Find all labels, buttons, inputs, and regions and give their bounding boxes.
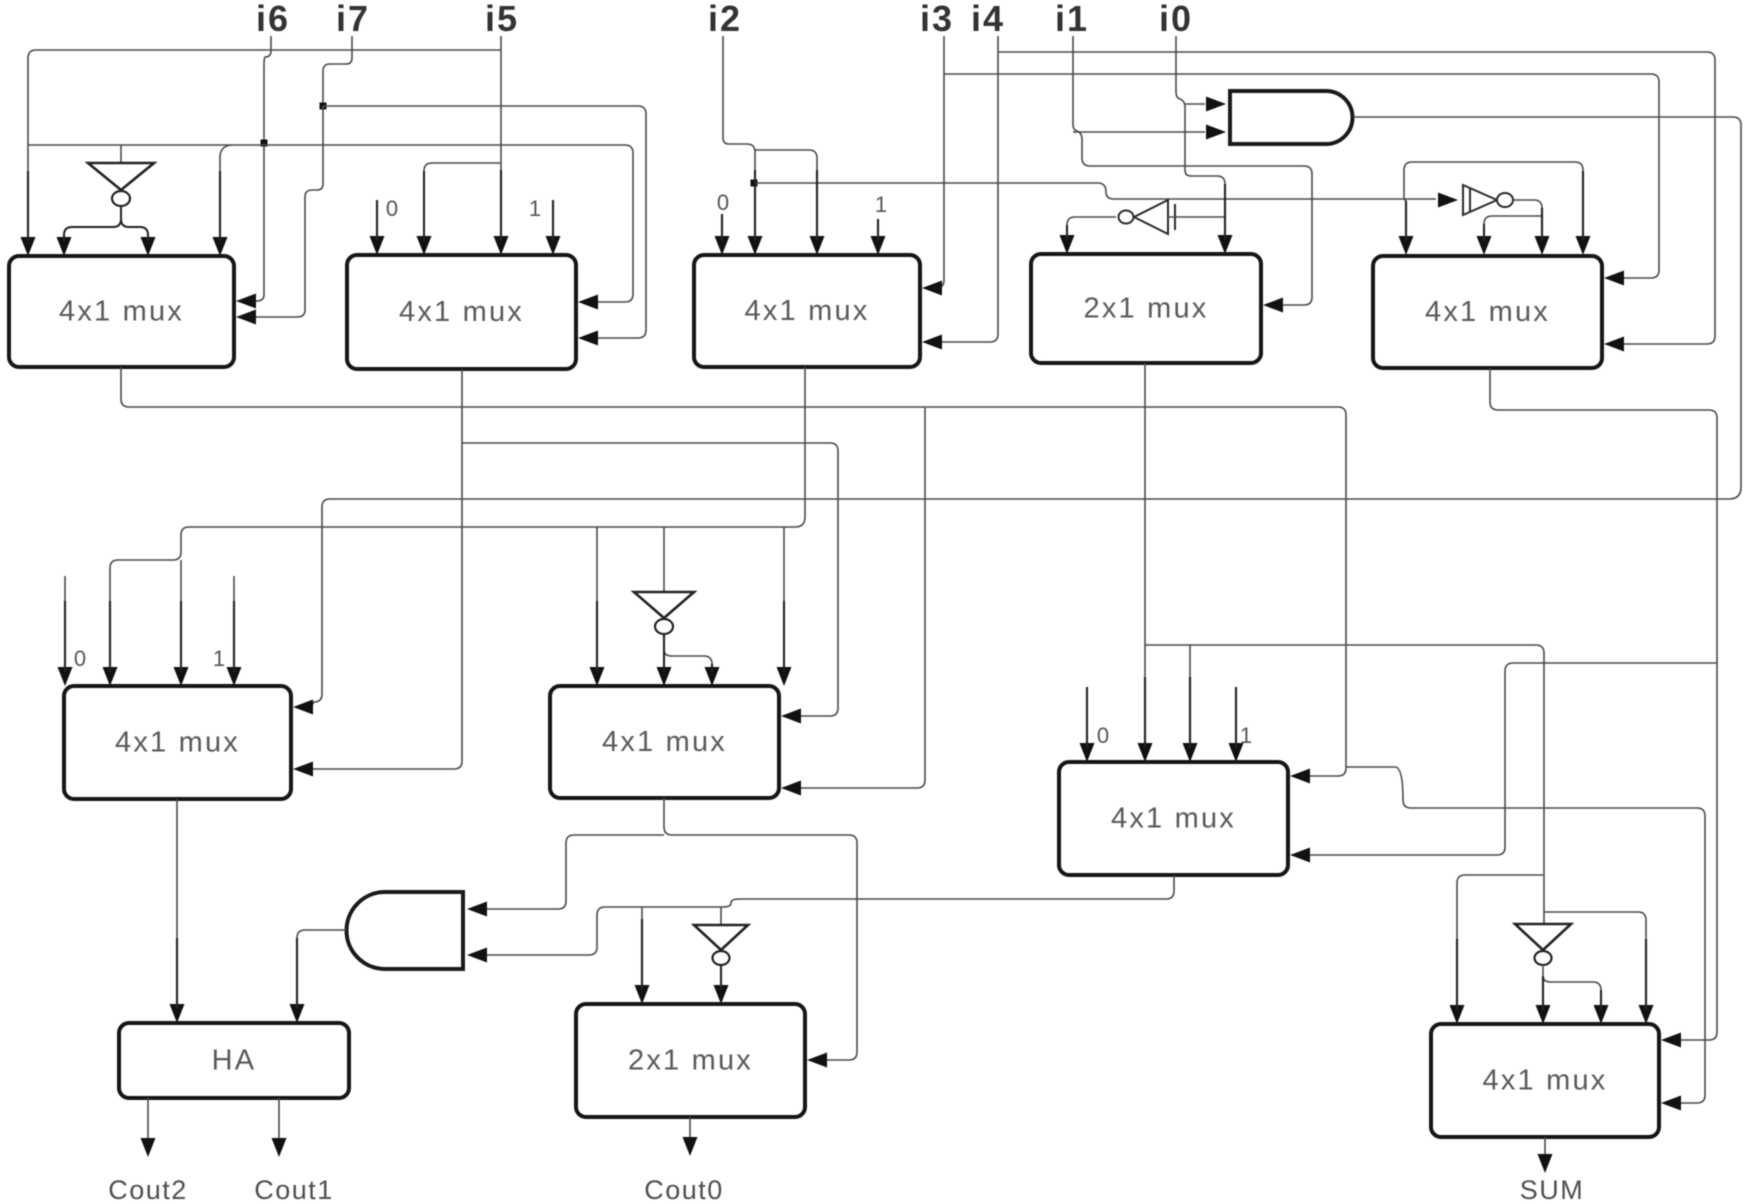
arrow into B8 in3 [1183,743,1198,762]
and gate G6 [347,892,464,969]
2x1 mux U4 [1031,254,1261,363]
wire darker arrow stems [28,170,1646,1010]
wire G2 output long return y499 [311,117,1741,707]
svg-text:2x1 mux: 2x1 mux [628,1045,753,1077]
wire y527 branch to G5 input [663,527,665,592]
arrow into B7 right select 1 [781,709,801,724]
arrow into B7 in2 [657,667,672,686]
arrow into B11 in4 [1639,1005,1654,1024]
wire B5out branch y663 to B8 select2 [1310,663,1717,855]
wire B10 output Cout0 [689,1117,691,1140]
arrow into B3 in4 [871,236,886,255]
junction i6 bus [261,140,268,147]
svg-text:Cout1: Cout1 [254,1175,334,1204]
svg-text:i7: i7 [336,0,370,39]
arrow into B2 in1 [370,236,385,255]
svg-text:4x1 mux: 4x1 mux [59,296,184,328]
wire HA output Cout1 [278,1098,280,1141]
arrow into B8 right select 1 [1290,769,1310,784]
arrow into B10 in2 [714,985,729,1004]
svg-text:i4: i4 [971,0,1005,39]
svg-text:i5: i5 [485,0,519,39]
wire HA output Cout2 [147,1098,149,1141]
wire G6 output to HA in2 [297,930,346,1007]
svg-text:i6: i6 [256,0,290,39]
wire const1 B2 in4 [552,200,554,239]
wire G7 output to B10 in2 [720,965,722,988]
wire branch to B10 in1 [641,907,643,988]
wire G5 branch to B7 in3 [664,650,712,672]
arrow into B1 in2 [57,237,72,256]
svg-text:1: 1 [213,646,225,671]
svg-text:4x1 mux: 4x1 mux [1483,1065,1608,1097]
wire branch to B1 in4 [220,145,231,240]
inverter G4 [1463,185,1513,215]
svg-text:i1: i1 [1055,0,1089,39]
wire i6 horizontal bus y145 [28,145,633,302]
4x1 mux U6 [64,686,291,799]
svg-text:1: 1 [875,192,887,217]
wire B6 output to HA in1 [176,799,178,1007]
wire B7 output tee [664,798,857,1060]
arrow into B6 in4 [227,667,242,686]
arrow into HA in1 [170,1004,185,1023]
arrow into B5 in3 [1535,236,1550,255]
arrow into B5 in1 [1399,236,1414,255]
wire G4 output branch to B5 in2 [1484,216,1542,239]
arrow into B1 in1 [21,237,36,256]
4x1 mux U1 [9,256,234,367]
wire B5 output right side down [1490,368,1717,1040]
arrow into G2 in1 [1206,97,1226,112]
4x1 mux U5 [1373,256,1602,368]
wire i3 branch y74 right edge [944,74,1659,278]
arrow into B1 right select 1 [236,294,256,309]
wire G1 input stub [120,145,122,164]
wire i1 stem [1073,36,1312,305]
svg-text:i2: i2 [708,0,742,39]
arrow output Cout2 [141,1138,156,1157]
svg-text:0: 0 [74,646,86,671]
wire B2 output down [313,369,462,769]
svg-text:i3: i3 [920,0,954,39]
wire B5 xor loop [1404,162,1583,239]
wire net407 branch to B7 select2 [801,408,925,788]
svg-text:4x1 mux: 4x1 mux [399,296,524,328]
svg-text:0: 0 [386,196,398,221]
wire G4 output to B5 in3 [1513,200,1542,239]
arrow into B5 right select 2 [1604,337,1624,352]
arrow into B11 right select 2 [1661,1096,1681,1111]
arrow into B5 right select 1 [1604,271,1624,286]
arrow into HA in2 [290,1004,305,1023]
arrow into B6 in3 [174,667,189,686]
svg-text:HA: HA [212,1045,257,1077]
junction i2 bus [751,180,758,187]
arrow into B7 right select 2 [781,781,801,796]
svg-text:SUM: SUM [1520,1175,1585,1204]
wire i5 left branch y50 to B1 in1 [28,50,501,240]
arrow into B6 in1 [58,667,73,686]
svg-text:1: 1 [1240,723,1252,748]
arrow into B4 in2 [1218,235,1233,254]
half adder HA [119,1023,349,1098]
junction i7 bus [320,103,327,110]
4x1 mux U7 [550,686,779,798]
wire i3 stem to B3 select1 [936,36,944,288]
arrow into B11 in3 [1594,1005,1609,1024]
arrow into B2 in4 [546,236,561,255]
wire i5 stem down to B2 in3 [500,36,502,239]
arrow into B6 in2 [103,667,118,686]
wire i4 stem to B3 select2 [940,36,998,342]
wire y645 branch to B8 in3 [1189,645,1191,746]
inverter G1 [88,163,154,206]
wire i0 stem jogs [1176,36,1225,240]
wire i4 branch y52 right edge [998,52,1715,344]
wire B2out branch y443 to B7 select1 [462,443,838,716]
wire const0 B8 in1 [1086,687,1088,746]
svg-text:Cout0: Cout0 [644,1175,724,1204]
wire y527 branch to B6 in3 [180,560,182,670]
wire i5 branch y163 to B2 in2 [424,163,501,239]
4x1 mux U2 [347,255,576,369]
svg-text:1: 1 [529,196,541,221]
svg-text:4x1 mux: 4x1 mux [1111,803,1236,835]
arrow into B4 right select [1263,298,1283,313]
arrow into G6 in1 [467,902,487,917]
arrow into B5 in2 [1477,236,1492,255]
wire const1 B3 in4 [877,219,879,241]
svg-text:2x1 mux: 2x1 mux [1084,293,1209,325]
arrow into B8 in2 [1138,743,1153,762]
wire i6 vertical below junction to B1 select [254,143,264,301]
wire const0 B6 in1 [64,576,66,670]
arrow into B2 in3 [494,236,509,255]
svg-text:0: 0 [1097,723,1109,748]
arrow into B7 in4 [777,667,792,686]
and gate G2 [1230,91,1353,144]
wire i2 stem jog to B3 in2 [723,36,755,239]
arrow into G4 input [1438,193,1458,208]
arrow into B3 right select 1 [922,281,942,296]
arrow into B11 in2 [1536,1005,1551,1024]
arrow into B1 in4 [213,237,228,256]
4x1 mux U8 [1059,762,1288,875]
arrow into B11 in1 [1450,1005,1465,1024]
wire const0 B3 in1 [721,214,723,239]
arrow into B8 right select 2 [1290,848,1310,863]
arrow output Cout1 [272,1138,287,1157]
arrow into B3 in3 [810,236,825,255]
arrow into B5 in4 [1576,236,1591,255]
wire branch to G7 input [720,907,722,925]
wire G8 branch to B11 in3 [1543,976,1601,1008]
4x1 mux U11 [1431,1024,1659,1137]
wire G5 output to B7 in2 [663,634,665,670]
wire G1 output split to B1 in2 in3 [64,206,148,240]
svg-text:0: 0 [717,190,729,215]
wire i0 branch to AND in1 [1185,103,1205,105]
wire G8 output to B11 in2 [1542,965,1544,1008]
arrow into B8 in4 [1229,743,1244,762]
arrow into B1 in3 [141,237,156,256]
svg-text:4x1 mux: 4x1 mux [745,295,870,327]
2x1 mux U10 [576,1004,805,1117]
inverter G8 [1515,924,1571,965]
wire G3 output to B4 in1 [1067,217,1116,240]
wire i1 branch to AND in2 [1073,131,1205,133]
arrow into B3 in2 [748,236,763,255]
wire const1 B8 in4 [1235,687,1237,746]
wire B4out branch y645 [1145,645,1544,924]
wire y527 branch to B7 in4 [783,527,785,670]
wire branch to B11 in4 [1544,912,1646,1008]
wire i7 stem with jog to junction [323,36,352,106]
arrow into B2 right select 1 [578,295,598,310]
wire i7 below junction to B1 select 2 [254,106,323,317]
wire i6 stem and jog down to junction [264,36,271,143]
svg-text:4x1 mux: 4x1 mux [115,727,240,759]
svg-text:4x1 mux: 4x1 mux [1425,296,1550,328]
arrow into G6 in2 [467,948,487,963]
wire net407 branch down right side [1346,767,1705,1103]
svg-text:4x1 mux: 4x1 mux [602,726,727,758]
wire y527 branch to B7 in1 [596,527,598,670]
arrow into B6 right select 2 [293,762,313,777]
arrow into B8 in1 [1080,743,1095,762]
wire i2 branch y150 to B3 in3 [755,150,817,239]
arrow into B1 right select 2 [236,310,256,325]
arrow into B3 right select 2 [922,335,942,350]
svg-text:i0: i0 [1159,0,1193,39]
arrow into G2 in2 [1206,125,1226,140]
4x1 mux U3 [694,255,920,367]
arrow into B10 right select [807,1053,827,1068]
wire B4 output down to B8 in2 [1144,363,1146,746]
arrow into B6 right select 1 [293,700,313,715]
arrow into B10 in1 [635,985,650,1004]
wire B8 output return to G6 in2 [487,875,1174,955]
arrow into B7 in3 [705,667,720,686]
wire B11 output SUM [1544,1137,1546,1157]
inverter G7 [694,925,748,965]
arrow output Cout0 [683,1137,698,1156]
wire branch to B11 in1 [1457,875,1543,1008]
wire B3 output to y527 bus [110,367,805,670]
arrow into B4 in1 [1060,235,1075,254]
wire const1 B6 in4 [233,576,235,670]
wire i7 horizontal bus y106 [323,106,646,338]
wire B7out left branch to G6 in1 [487,835,664,909]
inverter G3 [1119,200,1176,234]
wire G3 input from i0 vertical [1168,216,1225,218]
arrow into B7 in1 [590,667,605,686]
inverter G5 [634,592,694,634]
arrow into B2 right select 2 [578,331,598,346]
arrow into B11 right select 1 [1661,1033,1681,1048]
arrow into B3 in1 [715,236,730,255]
wire B1 output bus y407 [121,367,1346,776]
wire const0 B2 in1 [376,200,378,239]
wire i2 horizontal y183-199 to inverter G4 [754,183,1436,199]
arrow into B2 in2 [417,236,432,255]
svg-text:Cout2: Cout2 [108,1175,188,1204]
arrow output SUM [1538,1154,1553,1173]
